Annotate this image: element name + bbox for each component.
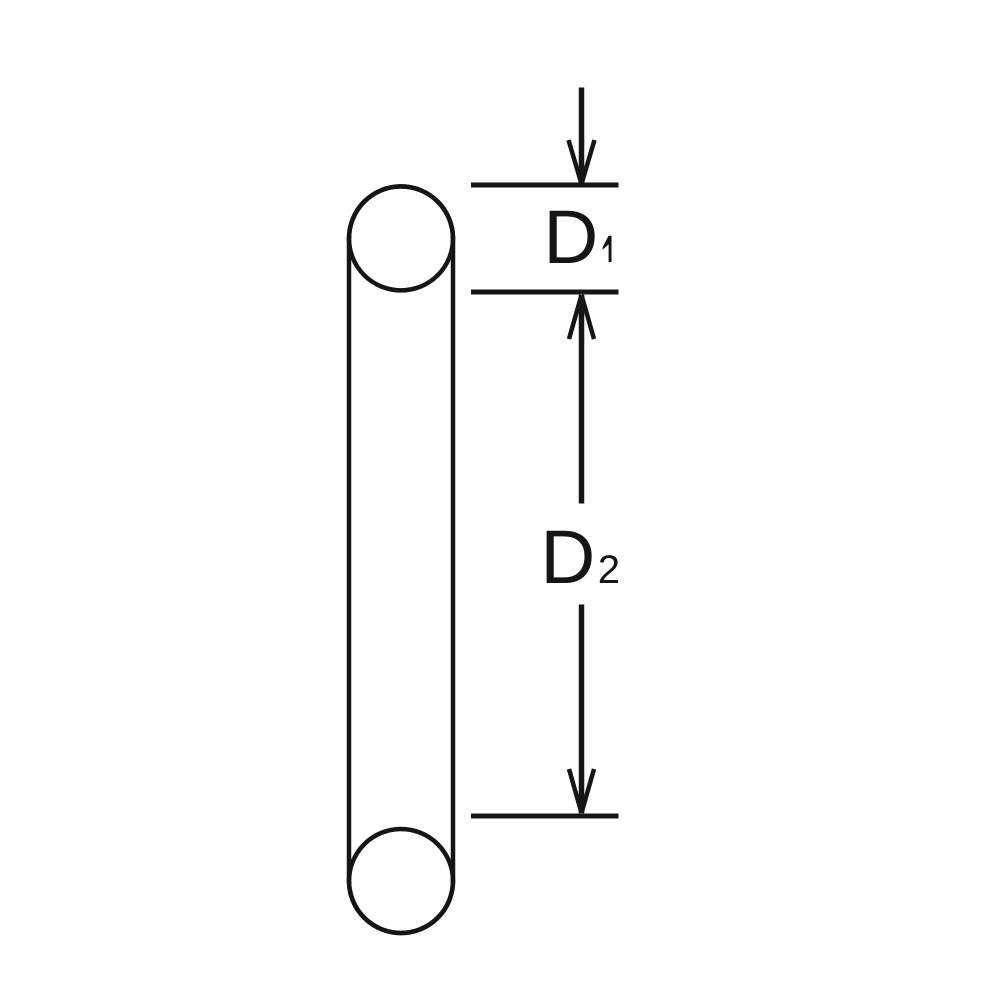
D1 top arrow stem <box>579 88 585 185</box>
D1 upper extension line <box>471 183 619 188</box>
D2 upper arrow stem <box>579 295 585 504</box>
o-ring body outline (stadium: left side line, top arc, right side line, bottom arc) <box>349 186 453 933</box>
D2 lower extension line <box>471 814 619 819</box>
D1 top arrowhead (down) <box>569 140 595 184</box>
label D1 subscript 1 <box>603 236 612 262</box>
D2 lower arrow stem <box>579 605 585 814</box>
label D2 <box>547 531 592 583</box>
D2 upper arrowhead (up) <box>569 295 594 339</box>
o-ring bottom cross-section circle <box>349 829 453 933</box>
D1 lower extension line <box>471 290 619 295</box>
label D2 subscript 2 <box>600 555 618 583</box>
o-ring top cross-section circle <box>349 186 453 290</box>
D2 lower arrowhead (down) <box>569 769 594 813</box>
label D1 <box>550 211 595 263</box>
